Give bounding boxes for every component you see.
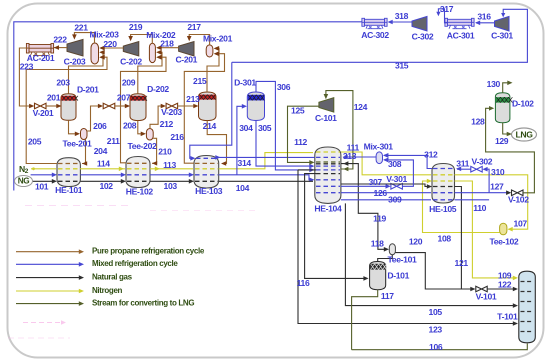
svg-text:125: 125: [291, 106, 305, 116]
wire stream 116 HE-104 to D-101: [305, 174, 367, 279]
arrows into Mix-203: [99, 46, 104, 51]
svg-text:121: 121: [455, 258, 469, 268]
wire stream 318 C-302 to AC-302: [389, 21, 413, 23]
wire stream 127 310 from HE-105 to V-302 and V-102: [455, 192, 511, 194]
svg-text:AC-301: AC-301: [447, 31, 475, 41]
svg-text:V-302: V-302: [472, 156, 493, 166]
wire stream 220 C-202 to Mix-203: [101, 47, 124, 49]
wire stream 205 HE-101 vapor to Mix-203: [26, 57, 107, 163]
wire stream 201 V-201 to D-201: [46, 105, 60, 107]
svg-text:318: 318: [395, 11, 409, 21]
splitter Tee-101: [389, 244, 395, 255]
wire stream 221 Mix-203 to C-203: [74, 33, 94, 43]
valve V-101: [476, 286, 487, 292]
drum D-101: [370, 262, 386, 290]
svg-text:Mix-301: Mix-301: [364, 142, 394, 152]
wire dashes inside HE-104 olive and black rows: [316, 161, 340, 163]
wire NG from HE-105 down to V-101: [455, 187, 474, 290]
svg-text:D-201: D-201: [77, 85, 99, 95]
wire stream 108 Tee-102 back to HE-105: [423, 181, 500, 233]
wire stream 214 D-203 bottom to HE-103: [207, 121, 226, 164]
svg-text:113: 113: [163, 160, 176, 170]
drum D-301: [247, 92, 264, 121]
splitter Tee-201: [81, 129, 88, 140]
svg-text:127: 127: [490, 181, 504, 191]
wire stream 206 Tee-201 to V-202: [87, 106, 99, 131]
svg-text:117: 117: [381, 291, 394, 301]
wire stream 117 D-101 bottom liquid: [352, 290, 378, 350]
wire propane dashes inside HE-103: [195, 162, 218, 164]
wire stream 211 HE-102 vapor to Mix-202: [121, 57, 167, 163]
svg-text:Tee-102: Tee-102: [489, 236, 518, 246]
compressor C-203: [67, 39, 83, 56]
heat exchanger HE-105: [432, 164, 455, 204]
svg-text:Stream for converting to LNG: Stream for converting to LNG: [92, 298, 194, 307]
wire stream 305 D-301 liquid down to HE-104: [256, 121, 313, 167]
svg-text:Tee-101: Tee-101: [388, 254, 417, 264]
valve V-201: [35, 103, 47, 109]
arrows into Mix-301: [383, 153, 388, 158]
svg-text:123: 123: [429, 325, 443, 335]
wire stream 107 nitrogen from HE-105 to Tee-102: [455, 175, 528, 229]
wire stream 313 Mix-301 output into HE-104: [346, 156, 376, 158]
svg-text:HE-102: HE-102: [126, 186, 154, 196]
svg-text:126: 126: [374, 188, 388, 198]
svg-text:308: 308: [388, 159, 402, 169]
wire stream 203 D-201 vapor to Mix-203: [69, 52, 104, 93]
wire stream 308 V-301 up to Mix-301: [384, 160, 413, 186]
wire stream 105 HE-104 to T-101: [345, 203, 515, 305]
wire stream 222 C-203 to AC-201: [54, 47, 67, 49]
wire stream 122 V-101 to T-101: [487, 288, 515, 290]
svg-text:128: 128: [471, 116, 485, 126]
wire propane dashes inside HE-102: [127, 162, 149, 164]
tower T-101 trays: [521, 281, 534, 283]
svg-text:222: 222: [53, 34, 67, 44]
wire stream 114 segment with arrow into HE-102: [80, 168, 125, 170]
svg-text:Mix-201: Mix-201: [203, 33, 233, 43]
svg-text:D-202: D-202: [147, 84, 169, 94]
svg-text:311: 311: [456, 159, 469, 169]
svg-text:Tee-201: Tee-201: [63, 138, 92, 148]
drum D-202: [130, 94, 146, 121]
wire stream 311 V-302 to HE-105: [457, 168, 471, 170]
svg-text:105: 105: [429, 307, 443, 317]
wire stream 129 D-102 to LNG: [503, 123, 511, 134]
valve V-202: [103, 103, 115, 109]
wire stream 130 D-102 vent: [503, 83, 511, 93]
svg-text:103: 103: [164, 181, 178, 191]
svg-text:107: 107: [514, 218, 528, 228]
wire D-201 bottom to Tee-201: [69, 120, 79, 134]
compressor C-101: [319, 98, 334, 112]
wire stream 123 HE-104 to T-101: [298, 169, 316, 171]
svg-text:216: 216: [170, 132, 184, 142]
air cooler AC-301: [445, 18, 474, 28]
svg-text:C-201: C-201: [175, 54, 197, 64]
wire nitrogen dashes inside HE-104: [316, 151, 340, 153]
drum D-203: [199, 92, 217, 121]
svg-text:C-202: C-202: [120, 56, 142, 66]
svg-text:C-302: C-302: [412, 31, 434, 41]
svg-text:205: 205: [28, 137, 42, 147]
svg-text:120: 120: [409, 237, 423, 247]
svg-text:221: 221: [74, 22, 88, 32]
wire stream 315 MR vapor to C-301: [232, 9, 528, 62]
wire D-202 bottom to Tee-202: [138, 121, 145, 134]
wire stream 216 HE-103 vapor to Mix-201: [184, 54, 224, 164]
wire stream 317 AC-301 to C-302: [438, 9, 447, 23]
arrows into Mix-202: [156, 45, 161, 50]
wire stream 113 segment with arrow into HE-103: [150, 168, 193, 170]
wire stream 118 arrow into Tee-101: [384, 247, 389, 252]
svg-text:V-201: V-201: [33, 108, 54, 118]
mixer Mix-201: [206, 45, 213, 57]
wire stream 110 121 109 nitrogen from HE-105 to T-101: [455, 181, 516, 278]
svg-text:305: 305: [258, 123, 272, 133]
svg-text:Nitrogen: Nitrogen: [92, 286, 123, 295]
svg-text:NG: NG: [18, 177, 30, 186]
compressor C-302: [412, 16, 427, 31]
svg-text:V-301: V-301: [386, 174, 407, 184]
svg-text:110: 110: [473, 203, 486, 213]
drum D-102: [495, 93, 510, 123]
wire MR trunk HE-103 to HE-104: [219, 175, 313, 180]
wire stream 204 Tee-201 to HE-101: [82, 140, 86, 164]
wire stream 307 HE-104 to V-301: [341, 185, 387, 187]
wire MR dashes inside HE-105: [433, 168, 454, 170]
splitter Tee-202: [146, 129, 153, 141]
svg-text:102: 102: [99, 181, 113, 191]
wire stream 119 HE-104 down to Tee-101: [341, 164, 388, 250]
svg-text:209: 209: [122, 77, 136, 87]
wire stream 126 HE-104 to HE-105 MR: [341, 192, 431, 194]
svg-text:LNG: LNG: [515, 129, 533, 139]
heat exchanger HE-103: [194, 156, 219, 189]
svg-text:314: 314: [238, 158, 252, 168]
wire stream 106 T-101 bottoms: [352, 344, 528, 350]
drum D-201: [61, 94, 76, 121]
valve V-302: [471, 166, 482, 172]
wire MR trunk through HE row: [31, 174, 56, 176]
ghost dashed line lower left: [8, 337, 70, 339]
wire propane dashes inside HE-101: [58, 163, 80, 165]
svg-text:AC-302: AC-302: [361, 30, 389, 40]
air cooler AC-302: [362, 18, 387, 28]
svg-text:C-301: C-301: [491, 30, 513, 40]
wire nitrogen dashes inside HE-105: [433, 174, 454, 176]
svg-text:207: 207: [117, 92, 131, 102]
svg-text:130: 130: [487, 79, 501, 89]
ghost dashes under HE row: [25, 205, 128, 207]
svg-text:215: 215: [193, 76, 207, 86]
wire NG trunk from NG oval through HE row: [31, 180, 56, 182]
svg-text:V-203: V-203: [161, 107, 182, 117]
svg-text:316: 316: [477, 12, 491, 22]
arrows into Mix-201: [214, 46, 219, 51]
wire stream 219 Mix-202 to C-202: [131, 35, 153, 44]
wire nitrogen N2 through HE-101 HE-102 HE-103: [31, 168, 56, 170]
svg-text:201: 201: [47, 92, 61, 102]
wire stream 209 D-202 vapor to Mix-202: [138, 52, 162, 93]
svg-text:T-101: T-101: [497, 311, 518, 321]
svg-text:106: 106: [429, 342, 443, 352]
splitter Tee-102: [500, 223, 507, 235]
mixer Mix-203: [91, 43, 99, 64]
compressor C-202: [123, 42, 139, 57]
svg-text:C-101: C-101: [315, 113, 337, 123]
svg-text:D-301: D-301: [234, 77, 256, 87]
wire stream 223 AC-201 to V-201: [19, 48, 30, 106]
svg-text:AC-201: AC-201: [27, 53, 55, 63]
node NG source oval: [15, 176, 33, 187]
svg-text:217: 217: [187, 22, 201, 32]
svg-text:114: 114: [97, 158, 110, 168]
svg-text:213: 213: [186, 94, 200, 104]
svg-text:212: 212: [160, 119, 174, 129]
tower T-101: [519, 271, 536, 343]
svg-text:307: 307: [369, 177, 383, 187]
svg-text:V-101: V-101: [476, 291, 497, 301]
wire Tee-101 down to D-101: [378, 255, 393, 262]
wire stream 304 HE-104 up to D-301: [237, 106, 245, 175]
valve V-203: [166, 103, 178, 109]
svg-text:112: 112: [294, 137, 307, 147]
svg-text:306: 306: [277, 82, 291, 92]
svg-text:Mix-203: Mix-203: [89, 29, 119, 39]
wire MR high-pressure header from AC-302 across top and down left side: [14, 22, 365, 191]
legend LNG stream line: [16, 303, 79, 305]
svg-text:310: 310: [491, 167, 505, 177]
svg-text:108: 108: [438, 233, 452, 243]
svg-text:218: 218: [160, 39, 174, 49]
svg-text:Pure propane refrigeration cyc: Pure propane refrigeration cycle: [92, 247, 205, 256]
svg-text:HE-105: HE-105: [429, 204, 457, 214]
wire stream 312 HE-105 up to Mix-301: [384, 155, 432, 168]
svg-text:220: 220: [103, 39, 117, 49]
heat exchanger HE-101: [57, 158, 80, 187]
svg-text:219: 219: [129, 22, 143, 32]
svg-text:214: 214: [203, 121, 217, 131]
heat exchanger HE-104: [315, 147, 341, 203]
svg-text:D-102: D-102: [512, 98, 534, 108]
node LNG product oval: [512, 128, 537, 141]
wire stream 316 C-301 to AC-301: [476, 22, 495, 24]
legend propane line: [16, 251, 79, 253]
svg-text:122: 122: [498, 279, 512, 289]
wire stream 213 V-203 to D-203: [178, 105, 197, 107]
svg-text:D-101: D-101: [387, 270, 409, 280]
legend nitrogen line: [16, 290, 79, 292]
svg-text:119: 119: [373, 213, 386, 223]
svg-text:HE-104: HE-104: [314, 203, 342, 213]
svg-text:309: 309: [388, 194, 402, 204]
svg-text:304: 304: [239, 123, 253, 133]
svg-text:313: 313: [343, 151, 357, 161]
svg-text:312: 312: [424, 150, 438, 160]
wire stream 309 MR return row: [341, 199, 431, 201]
heat exchanger HE-102: [126, 157, 150, 188]
valve V-301: [391, 184, 403, 190]
svg-text:204: 204: [94, 146, 108, 156]
wire stream 314 MR loop into HE-103 and across to HE-104: [190, 62, 232, 158]
wire stream 120 Tee-101 to V-101: [395, 253, 471, 289]
wire stream 210 Tee-202 to HE-102: [152, 138, 157, 163]
svg-text:211: 211: [107, 136, 120, 146]
valve V-102: [512, 190, 524, 196]
svg-text:V-102: V-102: [508, 194, 529, 204]
legend MR line: [16, 263, 79, 265]
wire stream 218 C-201 to Mix-202: [158, 47, 179, 49]
svg-text:315: 315: [395, 61, 409, 71]
svg-text:104: 104: [236, 183, 250, 193]
svg-text:Mixed refrigeration cycle: Mixed refrigeration cycle: [92, 259, 178, 268]
air cooler AC-201: [26, 44, 53, 56]
wire NG from HE-104 to HE-105: [341, 184, 431, 187]
svg-text:HE-101: HE-101: [55, 185, 83, 195]
wire stream 212 Tee-202 to V-203: [150, 106, 162, 129]
wire stream 217 Mix-201 to C-201: [189, 35, 209, 45]
wire stream 306 D-301 vapor down to HE-104: [256, 81, 313, 169]
wire stream 111 nitrogen from HE-104 down to HE-105: [341, 152, 431, 175]
svg-text:129: 129: [495, 136, 509, 146]
svg-text:210: 210: [158, 146, 172, 156]
wire NG trunk HE-103 to HE-104: [219, 180, 313, 182]
ghost dashed line bottom left: [23, 320, 66, 324]
compressor C-301: [495, 16, 510, 31]
wire stream 128 V-102 to D-102: [486, 108, 535, 193]
wire stream 124 suction of C-101: [326, 91, 353, 169]
svg-text:208: 208: [123, 121, 137, 131]
svg-text:124: 124: [354, 102, 368, 112]
wire stream 112 nitrogen up into HE-104: [219, 153, 313, 169]
svg-text:317: 317: [440, 4, 454, 14]
mixer Mix-301: [376, 152, 382, 164]
wire MR dashes inside HE-104 row 157: [316, 156, 340, 158]
svg-text:C-203: C-203: [64, 56, 86, 66]
wire stream 207 V-202 to D-202: [115, 105, 129, 107]
svg-text:203: 203: [56, 77, 70, 87]
svg-text:HE-103: HE-103: [195, 186, 223, 196]
svg-text:Natural gas: Natural gas: [92, 272, 133, 281]
wire stream 215 D-203 vapor to Mix-201: [207, 48, 219, 92]
ghost dashes mid sheet: [150, 210, 260, 212]
mixer Mix-202: [149, 43, 155, 62]
svg-text:118: 118: [371, 238, 384, 248]
wire stream 125 C-101 discharge into HE-104: [288, 106, 319, 162]
svg-text:Tee-202: Tee-202: [128, 141, 157, 151]
svg-text:116: 116: [297, 278, 310, 288]
svg-text:206: 206: [93, 121, 107, 131]
svg-text:101: 101: [35, 182, 49, 192]
compressor C-201: [179, 42, 194, 56]
legend natural gas line: [16, 277, 79, 279]
